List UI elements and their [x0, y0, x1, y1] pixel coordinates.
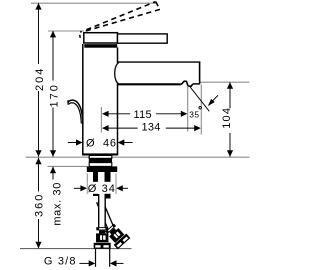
jet arrow: [212, 95, 218, 101]
svg-text:35: 35: [189, 110, 199, 120]
angled G3/8 fitting: [103, 222, 130, 249]
angle 35 deg jet line: [190, 87, 209, 112]
G3/8 extension right: [109, 249, 111, 267]
Ø34 extension right: [115, 174, 117, 195]
lever grip: [118, 34, 168, 43]
wire reference line hose end: [20, 248, 132, 250]
spout underside with aerator: [118, 83, 181, 85]
svg-text:Ø 46: Ø 46: [86, 138, 117, 150]
lever cap over body: [84, 33, 118, 43]
dimension 360: [38, 158, 40, 192]
cartridge dark band: [84, 44, 117, 48]
spout: [118, 61, 200, 63]
mounting flange nut: [87, 166, 117, 172]
hose stub right: [105, 172, 111, 199]
dashed raised lever lower edge: [84, 9, 160, 31]
shank section 1: [89, 155, 112, 158]
dashed raised lever end cap: [156, 2, 160, 10]
shank section 2 dark: [89, 158, 112, 162]
dimension 104: [229, 82, 231, 108]
dimension 170: [52, 31, 54, 81]
vertical hose tube: [99, 194, 106, 227]
dimension 204: [38, 3, 40, 64]
svg-text:204: 204: [34, 67, 46, 91]
G3/8 extension left: [95, 249, 97, 267]
vertical G3/8 fitting: [94, 227, 111, 249]
spout tip extension line: [200, 85, 202, 135]
svg-text:170: 170: [48, 83, 60, 107]
wire reference line counter top: [26, 156, 250, 158]
svg-text:104: 104: [221, 107, 233, 129]
dimension G 3/8: [79, 262, 89, 264]
spout junction arc: [115, 62, 119, 84]
pop-up rod: [68, 100, 83, 124]
Ø34 extension left: [86, 174, 88, 195]
svg-text:115: 115: [133, 109, 151, 121]
svg-text:Ø 34: Ø 34: [88, 183, 116, 195]
dimension 134: [108, 127, 137, 129]
shank section 3: [89, 163, 112, 167]
wire reference line top 204: [31, 2, 156, 4]
dashed pivot arc: [80, 31, 82, 38]
dimension Ø46: [68, 142, 76, 144]
svg-text:G 3/8: G 3/8: [44, 256, 77, 268]
wire reference line spout height: [200, 81, 250, 83]
aerator extension line: [187, 86, 189, 132]
center extension line: [100, 107, 102, 133]
svg-text:max. 30: max. 30: [51, 182, 63, 226]
dimension Ø34: [88, 182, 116, 194]
dashed raised lever upper edge: [86, 2, 155, 30]
svg-text:134: 134: [141, 121, 160, 133]
hose stub left: [93, 172, 98, 196]
svg-text:360: 360: [34, 193, 46, 217]
body bottom edge: [82, 153, 118, 155]
dimension 115: [108, 113, 130, 115]
faucet body: [83, 44, 118, 155]
wire reference line counter underside: [48, 165, 88, 167]
dimension max. 30: [52, 167, 54, 180]
wire reference line 170: [48, 30, 84, 32]
angled hose tube: [99, 201, 110, 227]
